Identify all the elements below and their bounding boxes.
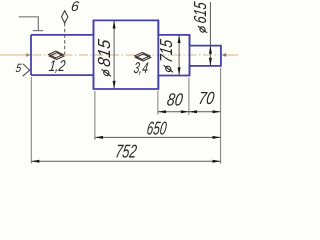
svg-text:650: 650 <box>146 118 169 139</box>
svg-text:80: 80 <box>166 89 184 109</box>
svg-text:70: 70 <box>197 88 215 108</box>
svg-text:715: 715 <box>156 38 176 64</box>
svg-text:615: 615 <box>190 1 210 25</box>
svg-text:1,2: 1,2 <box>48 58 67 75</box>
svg-text:815: 815 <box>94 38 114 68</box>
svg-text:3,4: 3,4 <box>133 60 150 77</box>
svg-text:752: 752 <box>114 140 138 161</box>
